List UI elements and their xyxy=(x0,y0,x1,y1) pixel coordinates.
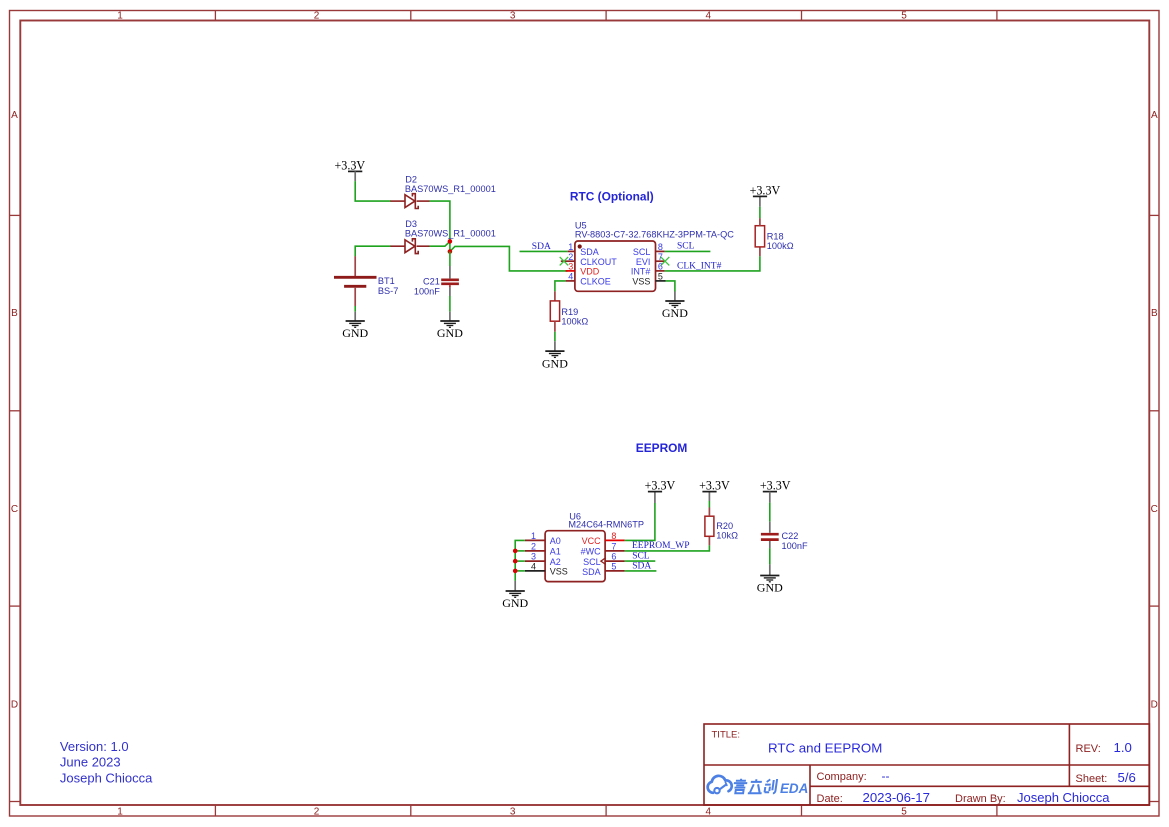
svg-text:D: D xyxy=(11,700,18,711)
power flag +3.3V (U6 VCC) xyxy=(645,478,676,503)
svg-text:5: 5 xyxy=(901,11,907,22)
wire C22 to ground xyxy=(769,548,771,564)
svg-text:R18: R18 xyxy=(767,232,784,242)
junction dot A2 xyxy=(513,559,518,564)
svg-text:D2: D2 xyxy=(405,174,417,184)
power flag +3.3V (R20) xyxy=(699,478,730,501)
svg-text:4: 4 xyxy=(568,271,573,281)
svg-text:1: 1 xyxy=(117,806,123,817)
U6 pin 3 A2 xyxy=(525,552,561,567)
svg-text:100kΩ: 100kΩ xyxy=(561,316,588,326)
power flag +3.3V (R18) xyxy=(750,183,781,206)
JLCEDA logo text 嘉立创 (stylised) xyxy=(732,779,777,794)
svg-text:RTC and EEPROM: RTC and EEPROM xyxy=(768,740,882,755)
svg-text:A0: A0 xyxy=(550,536,561,546)
U6 pin 4 VSS xyxy=(525,561,568,576)
net label SCL (U5) xyxy=(665,242,711,252)
resistor R19 xyxy=(550,291,559,331)
svg-text:SDA: SDA xyxy=(632,562,651,572)
svg-text:SDA: SDA xyxy=(532,242,551,252)
U5 pin 4 CLKOE xyxy=(566,271,611,286)
wire R20 to +3.3V xyxy=(708,501,710,508)
svg-text:BAS70WS_R1_00001: BAS70WS_R1_00001 xyxy=(405,228,496,238)
svg-text:7: 7 xyxy=(611,541,616,551)
svg-text:GND: GND xyxy=(662,306,688,320)
U5 pin 5 VSS xyxy=(632,271,665,286)
U5 pin 1 SDA xyxy=(568,242,599,257)
svg-text:VCC: VCC xyxy=(582,536,602,546)
svg-text:5: 5 xyxy=(901,806,907,817)
U5 pin 8 SCL xyxy=(633,242,665,257)
wire U5 CLKOE to R19 xyxy=(555,281,566,292)
op-amp-like IC U5 body xyxy=(575,241,656,291)
svg-text:D3: D3 xyxy=(405,219,417,229)
svg-text:6: 6 xyxy=(611,552,616,562)
svg-text:--: -- xyxy=(882,769,890,783)
svg-text:+3.3V: +3.3V xyxy=(645,478,676,492)
junction dot lower xyxy=(448,249,453,254)
svg-text:Sheet:: Sheet: xyxy=(1076,773,1108,785)
svg-text:REV:: REV: xyxy=(1076,743,1101,755)
ground (U5 VSS) xyxy=(662,292,688,321)
svg-text:#WC: #WC xyxy=(581,547,602,557)
svg-text:Version: 1.0: Version: 1.0 xyxy=(60,739,129,754)
svg-text:VSS: VSS xyxy=(550,567,568,577)
svg-text:Drawn By:: Drawn By: xyxy=(955,793,1006,805)
svg-text:GND: GND xyxy=(757,581,783,595)
svg-text:SCL: SCL xyxy=(633,247,651,257)
svg-text:Joseph Chiocca: Joseph Chiocca xyxy=(1017,790,1110,805)
svg-text:BS-7: BS-7 xyxy=(378,286,398,296)
svg-text:June 2023: June 2023 xyxy=(60,755,121,770)
svg-text:8: 8 xyxy=(611,531,616,541)
svg-text:VSS: VSS xyxy=(632,276,650,286)
battery BT1 xyxy=(334,256,377,306)
junction dot upper xyxy=(448,239,453,244)
power flag +3.3V (battery input) xyxy=(334,158,365,181)
svg-text:2: 2 xyxy=(531,541,536,551)
junction dot A1 xyxy=(513,549,518,554)
wire D2 cathode to junction xyxy=(430,201,450,251)
ground (R19) xyxy=(542,341,568,370)
svg-text:GND: GND xyxy=(342,326,368,340)
U5 pin-1 marker dot xyxy=(578,244,582,248)
wire battery minus to ground xyxy=(354,306,356,312)
wire U6 address bus to ground xyxy=(515,540,525,581)
EEPROM-SECTION xyxy=(502,441,808,610)
svg-text:3: 3 xyxy=(510,11,516,22)
ground (C21) xyxy=(437,312,463,341)
svg-text:+3.3V: +3.3V xyxy=(699,478,730,492)
resistor R20 xyxy=(705,508,714,546)
svg-text:1: 1 xyxy=(531,531,536,541)
svg-text:GND: GND xyxy=(542,356,568,370)
svg-text:CLKOUT: CLKOUT xyxy=(580,257,617,267)
svg-text:A: A xyxy=(1151,110,1158,121)
svg-text:10kΩ: 10kΩ xyxy=(716,530,738,540)
svg-text:B: B xyxy=(11,308,18,319)
svg-text:4: 4 xyxy=(706,806,712,817)
svg-text:2: 2 xyxy=(314,11,320,22)
net label SDA (U6) xyxy=(625,562,657,572)
wire U5 VSS to ground xyxy=(666,281,675,292)
svg-text:SDA: SDA xyxy=(582,567,601,577)
U6 pin 7 #WC xyxy=(581,541,625,556)
svg-text:3: 3 xyxy=(531,552,536,562)
net label SCL (U6) xyxy=(625,552,656,562)
svg-text:5: 5 xyxy=(658,271,663,281)
U6 pin 6 SCL (clock arrow) xyxy=(583,552,625,567)
wire junction to U5 VDD pin 3 xyxy=(450,246,568,271)
svg-text:5/6: 5/6 xyxy=(1118,770,1136,785)
svg-text:2023-06-17: 2023-06-17 xyxy=(863,790,930,805)
svg-text:8: 8 xyxy=(658,242,663,252)
RTC-SECTION xyxy=(334,158,794,370)
svg-text:C21: C21 xyxy=(423,277,440,287)
svg-text:EEPROM: EEPROM xyxy=(636,441,688,455)
junction dot VSS xyxy=(513,569,518,574)
svg-text:EVI: EVI xyxy=(636,257,651,267)
net label SDA (U5) xyxy=(520,242,568,252)
svg-text:+3.3V: +3.3V xyxy=(334,158,365,172)
svg-text:A: A xyxy=(11,110,18,121)
ground (battery) xyxy=(342,312,368,341)
capacitor C22 xyxy=(761,522,779,548)
wire U6 #WC to R20 / net EEPROM_WP xyxy=(625,541,710,551)
capacitor C21 xyxy=(441,266,459,296)
svg-text:2: 2 xyxy=(314,806,320,817)
svg-text:EEPROM_WP: EEPROM_WP xyxy=(632,541,690,551)
svg-text:GND: GND xyxy=(437,326,463,340)
svg-text:+3.3V: +3.3V xyxy=(760,478,791,492)
svg-text:SCL: SCL xyxy=(632,552,650,562)
capacitor C21 top wire xyxy=(449,252,451,267)
wire C21 to ground xyxy=(449,296,451,312)
svg-text:Date:: Date: xyxy=(817,793,843,805)
svg-text:4: 4 xyxy=(706,11,712,22)
svg-text:R20: R20 xyxy=(716,521,733,531)
U6 pin 1 A0 xyxy=(525,531,561,546)
svg-text:BT1: BT1 xyxy=(378,276,395,286)
svg-text:100kΩ: 100kΩ xyxy=(767,241,794,251)
svg-text:TITLE:: TITLE: xyxy=(712,730,741,741)
svg-text:M24C64-RMN6TP: M24C64-RMN6TP xyxy=(568,520,644,530)
svg-text:4: 4 xyxy=(531,561,536,571)
diode D3 xyxy=(390,239,429,254)
svg-text:100nF: 100nF xyxy=(782,541,808,551)
power flag +3.3V (C22) xyxy=(760,478,791,502)
svg-text:2: 2 xyxy=(568,252,573,262)
U5 pin 3 VDD xyxy=(566,262,600,277)
wire +3.3V to D2 anode xyxy=(355,181,391,201)
svg-text:1: 1 xyxy=(117,11,123,22)
svg-text:5: 5 xyxy=(611,561,616,571)
svg-text:C22: C22 xyxy=(782,531,799,541)
svg-text:CLKOE: CLKOE xyxy=(580,276,611,286)
svg-text:A1: A1 xyxy=(550,547,561,557)
svg-text:+3.3V: +3.3V xyxy=(750,183,781,197)
resistor R18 xyxy=(755,218,764,256)
svg-text:1.0: 1.0 xyxy=(1114,740,1132,755)
wire U5 INT# to R18 / net CLK_INT# xyxy=(665,256,760,271)
svg-text:100nF: 100nF xyxy=(414,286,440,296)
svg-text:SCL: SCL xyxy=(677,242,695,252)
svg-text:CLK_INT#: CLK_INT# xyxy=(677,261,722,271)
svg-text:VDD: VDD xyxy=(580,267,600,277)
svg-text:Company:: Company: xyxy=(817,771,867,783)
svg-text:B: B xyxy=(1151,308,1158,319)
U5 pin 7 EVI (no-connect) xyxy=(636,252,669,267)
svg-text:Joseph Chiocca: Joseph Chiocca xyxy=(60,771,153,786)
ground (U6 address pins) xyxy=(502,581,528,610)
svg-text:6: 6 xyxy=(658,262,663,272)
U6 pin 5 SDA xyxy=(582,561,625,577)
svg-text:R19: R19 xyxy=(561,307,578,317)
svg-text:1: 1 xyxy=(568,242,573,252)
svg-text:BAS70WS_R1_00001: BAS70WS_R1_00001 xyxy=(405,184,496,194)
svg-text:D: D xyxy=(1151,700,1158,711)
svg-text:EDA: EDA xyxy=(780,781,808,796)
svg-text:RTC (Optional): RTC (Optional) xyxy=(570,190,654,204)
wire D3 cathode to junction xyxy=(430,241,450,246)
diode D2 xyxy=(390,194,429,209)
svg-text:3: 3 xyxy=(510,806,516,817)
U6 pin 8 VCC xyxy=(582,531,625,546)
svg-text:A2: A2 xyxy=(550,557,561,567)
svg-text:7: 7 xyxy=(658,252,663,262)
wire battery top to D3 anode xyxy=(355,246,391,256)
U5 pin 2 CLKOUT (no-connect) xyxy=(560,252,618,267)
U5 pin 6 INT# xyxy=(631,262,665,277)
svg-text:C: C xyxy=(1151,504,1158,515)
svg-text:C: C xyxy=(11,504,18,515)
JLCEDA logo cloud xyxy=(708,776,732,793)
wire R18 to +3.3V xyxy=(759,207,761,218)
TITLE-BLOCK xyxy=(60,724,1149,805)
IC U6 body xyxy=(545,531,605,582)
svg-text:GND: GND xyxy=(502,596,528,610)
svg-text:INT#: INT# xyxy=(631,267,651,277)
ground (C22) xyxy=(757,564,783,594)
svg-text:SDA: SDA xyxy=(580,247,599,257)
U6 pin 2 A1 xyxy=(525,541,561,556)
wire R19 to ground xyxy=(554,332,556,341)
wire U6 VCC to +3.3V xyxy=(625,503,655,540)
wire +3.3V to C22 xyxy=(769,503,771,522)
svg-text:SCL: SCL xyxy=(583,557,601,567)
svg-text:RV-8803-C7-32.768KHZ-3PPM-TA-Q: RV-8803-C7-32.768KHZ-3PPM-TA-QC xyxy=(575,229,734,239)
svg-text:3: 3 xyxy=(568,262,573,272)
